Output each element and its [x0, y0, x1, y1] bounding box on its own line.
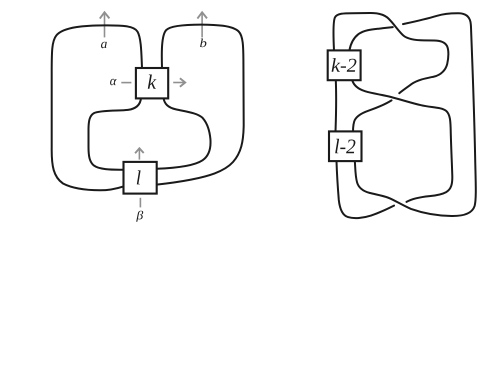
wire: right figure strand from box k-2 top-right rising, ending before top under-crossing	[349, 27, 392, 50]
wire: left figure inner left loop from box k bottom-left into box l upper-left	[89, 98, 142, 170]
arrow above box l (gray up arrow)	[135, 148, 144, 159]
box k-2	[328, 50, 361, 80]
wire: left figure inner right loop from box k bottom-right into box l upper-right	[157, 98, 211, 169]
arrow b (gray up arrow top-right)	[197, 12, 207, 37]
box l-2	[329, 131, 362, 161]
wire: right figure straight strand from box k-2 bottom-left down to box l-2 top-left	[335, 80, 338, 131]
label k value	[148, 75, 157, 89]
label beta	[136, 211, 143, 222]
box l	[124, 162, 157, 194]
label b	[200, 39, 206, 48]
beta dash (gray)	[139, 198, 141, 208]
wire: left figure outer left strand from box k top-left over arc a down left side into box l	[52, 25, 142, 190]
wire: right figure strand from box k-2 bottom-right over middle crossing down inner right side, ending before bottom under-crossing	[352, 80, 452, 202]
wire: continuation after top under-crossing up over right corner down far-right side around bottom-right, over bottom crossing, into box l-2 bottom-right	[355, 13, 476, 216]
wire: continuation after bottom under-crossing along bottom to bottom-left corner up into box l-2 bottom-left	[337, 161, 395, 218]
label alpha	[110, 79, 117, 86]
label k-2 value	[332, 58, 357, 72]
label a	[101, 42, 107, 49]
wire: continuation after middle under-crossing down into box l-2 top-right	[353, 100, 391, 131]
alpha dash (gray)	[121, 82, 131, 84]
wire: left figure outer right strand from box k top-right over arc b down right side into box l	[157, 25, 244, 185]
wire: right figure strand from box k-2 top-left up over top, over-crossing at top, right hook, ending before middle under-crossing	[333, 13, 448, 93]
arrow right of box k (gray)	[173, 78, 185, 86]
label l-2 value	[335, 139, 355, 154]
box k	[136, 68, 168, 98]
label l value	[137, 170, 141, 184]
arrow a (gray up arrow top-left)	[100, 12, 110, 37]
